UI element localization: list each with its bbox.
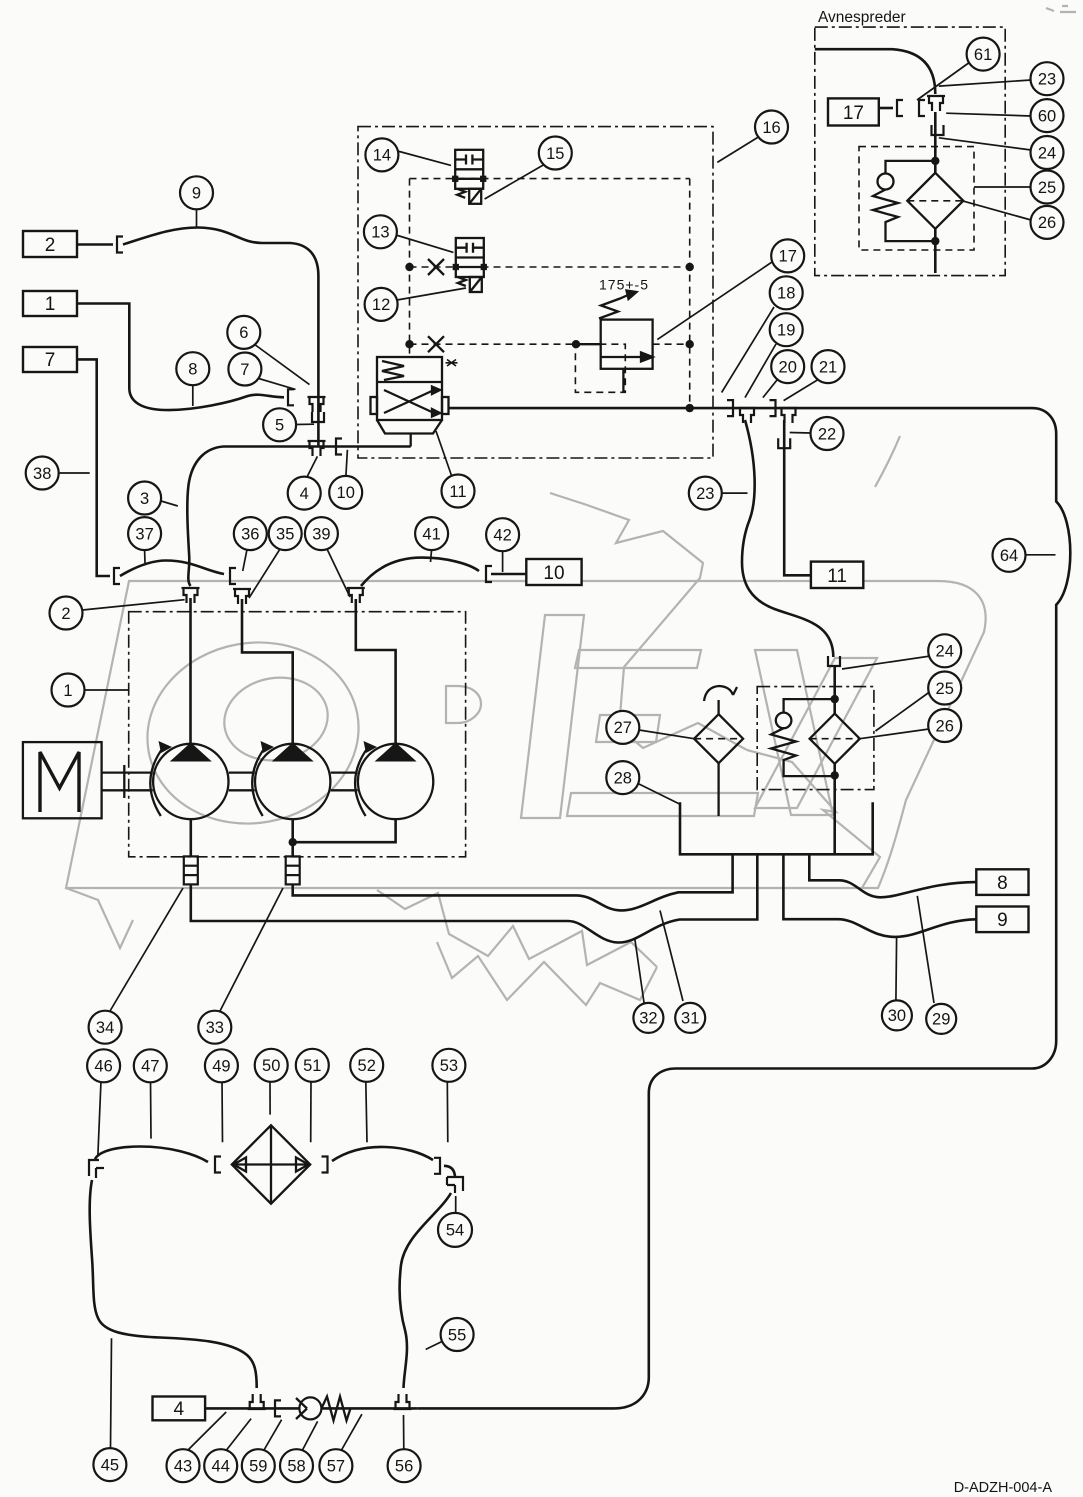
- oil cooler 50: [232, 1125, 310, 1203]
- filter element 26: [907, 173, 963, 229]
- leader 38: [59, 472, 90, 474]
- balloon 58: [280, 1449, 313, 1482]
- svg-text:11: 11: [827, 566, 847, 587]
- svg-text:25: 25: [936, 680, 954, 698]
- leader 41: [431, 550, 432, 562]
- box 2: [23, 231, 77, 257]
- balloon 49: [205, 1049, 238, 1082]
- motor letter M: [40, 752, 79, 812]
- hose 9: [123, 228, 318, 447]
- svg-text:30: 30: [888, 1007, 906, 1025]
- horizontal line y446: [223, 445, 411, 448]
- tee fitting: [927, 96, 945, 111]
- svg-text:19: 19: [777, 322, 795, 340]
- tee fitting 21: [780, 408, 798, 423]
- check valve 58: [299, 1397, 321, 1419]
- leader 42: [502, 551, 504, 572]
- tee fitting 19: [738, 408, 756, 423]
- fitting 59: [275, 1400, 281, 1416]
- svg-text:2: 2: [45, 235, 56, 256]
- leader 64: [1026, 554, 1056, 556]
- fitting left of cross: [288, 389, 294, 405]
- balloon 20: [771, 350, 804, 383]
- fitting: [114, 568, 120, 584]
- balloon 8 leader: [192, 386, 194, 407]
- svg-text:56: 56: [395, 1458, 413, 1476]
- box 9: [976, 907, 1028, 933]
- motor box: [23, 742, 102, 818]
- svg-text:11: 11: [449, 483, 466, 501]
- hose from tee(318,446) to pump1 riser: [187, 447, 223, 587]
- svg-text:7: 7: [240, 361, 249, 379]
- svg-text:6: 6: [239, 324, 248, 342]
- Avnespreder enclosure (dash-dot): [815, 27, 1005, 276]
- svg-text:61: 61: [974, 46, 992, 64]
- return line A to tank: [293, 854, 733, 910]
- svg-text:8: 8: [188, 361, 197, 379]
- svg-text:64: 64: [1000, 547, 1018, 565]
- valve 13: [454, 238, 486, 292]
- long hose 64 around page: [417, 408, 1070, 1408]
- balloon 8: [176, 352, 209, 385]
- svg-text:35: 35: [276, 525, 294, 543]
- check valve with spring: [878, 174, 894, 190]
- tee fitting 44: [248, 1394, 266, 1409]
- bottom supply line: [205, 1407, 417, 1410]
- balloon 24: [1031, 136, 1064, 169]
- svg-text:26: 26: [1038, 214, 1056, 232]
- fitting 60: [919, 100, 925, 116]
- reservoir tank: [680, 802, 873, 854]
- fitting 20: [770, 400, 776, 416]
- svg-text:23: 23: [1038, 71, 1056, 89]
- box 10: [526, 559, 581, 585]
- orifice X marks: [428, 259, 444, 275]
- pump unit enclosure (dash-dot): [129, 612, 466, 857]
- return filter element 26: [810, 714, 860, 764]
- balloon 21: [812, 350, 845, 383]
- balloon 25: [928, 672, 961, 705]
- balloon 64: [993, 539, 1026, 572]
- balloon 57: [319, 1449, 352, 1482]
- fitting 24: [828, 656, 840, 666]
- svg-text:2: 2: [61, 605, 70, 623]
- balloon 43: [167, 1449, 200, 1482]
- pump drain lines: [190, 819, 193, 856]
- svg-text:50: 50: [262, 1057, 280, 1075]
- WATERMARK: [66, 6, 1076, 1005]
- balloon 51: [296, 1049, 329, 1082]
- balloon 17: [771, 239, 804, 272]
- svg-text:4: 4: [174, 1399, 185, 1420]
- box 7: [23, 347, 77, 372]
- balloon 16: [755, 111, 788, 144]
- svg-text:Avnespreder: Avnespreder: [818, 9, 906, 26]
- leader 54: [455, 1196, 457, 1212]
- balloon 50: [255, 1049, 288, 1082]
- leaders 18-22: [722, 307, 774, 393]
- balloon 55: [441, 1318, 474, 1351]
- tee fitting 56: [394, 1394, 412, 1409]
- balloon 33: [198, 1011, 231, 1044]
- leader 10: [346, 450, 348, 476]
- svg-text:3: 3: [140, 490, 149, 508]
- balloon 19: [770, 313, 803, 346]
- svg-text:10: 10: [543, 563, 564, 584]
- svg-text:5: 5: [275, 417, 284, 435]
- elbow fitting 46: [89, 1160, 104, 1178]
- svg-text:16: 16: [762, 119, 780, 137]
- balloon 15: [539, 137, 572, 170]
- balloon 53: [432, 1049, 465, 1082]
- filter box 25 (dashed): [859, 147, 974, 250]
- hose 23 to return filter: [742, 420, 833, 657]
- svg-text:43: 43: [174, 1458, 192, 1476]
- balloon 54: [438, 1213, 472, 1247]
- svg-text:8: 8: [997, 873, 1008, 894]
- valve 14: [453, 150, 485, 204]
- leaders 36 35 39: [243, 550, 247, 572]
- svg-text:7: 7: [45, 350, 56, 371]
- balloon 31: [675, 1003, 705, 1033]
- balloon 59: [242, 1449, 275, 1482]
- balloon 2: [50, 597, 83, 630]
- svg-text:25: 25: [1038, 179, 1056, 197]
- drive shaft: [102, 771, 153, 773]
- svg-text:54: 54: [446, 1222, 464, 1240]
- svg-text:47: 47: [141, 1058, 159, 1076]
- balloon 26: [928, 709, 961, 742]
- leader 45: [111, 1338, 112, 1448]
- svg-text:42: 42: [493, 527, 511, 545]
- svg-text:14: 14: [373, 147, 391, 165]
- tee fitting at 4: [308, 441, 326, 456]
- balloon 52: [350, 1049, 383, 1082]
- balloon 3: [128, 482, 161, 515]
- return line B to tank: [191, 854, 758, 942]
- fitting 18: [727, 400, 733, 416]
- relief valve: [576, 291, 653, 393]
- hose from box 1: [77, 304, 284, 411]
- svg-text:1: 1: [63, 682, 72, 700]
- balloon 44: [204, 1449, 237, 1482]
- pump suction risers: [189, 598, 192, 744]
- svg-text:9: 9: [997, 910, 1008, 931]
- fitting 36: [230, 568, 236, 584]
- balloon 32: [633, 1003, 663, 1033]
- leader 5: [296, 423, 314, 425]
- leaders 14 13 12 15 16 17: [398, 151, 452, 165]
- leader 55: [426, 1341, 443, 1349]
- hose 45: [90, 1180, 257, 1388]
- balloon 34: [89, 1011, 122, 1044]
- balloon 26: [1031, 206, 1064, 239]
- filter bypass check valve: [784, 699, 835, 713]
- hose 52: [332, 1147, 433, 1161]
- balloon 22: [811, 417, 844, 450]
- leader 6: [254, 344, 310, 385]
- leader balloon2: [83, 600, 185, 610]
- svg-text:15: 15: [546, 145, 564, 163]
- svg-text:17: 17: [779, 248, 797, 266]
- balloon 61: [967, 38, 1000, 71]
- balloon 9: [180, 176, 213, 209]
- balloon 11: [442, 475, 475, 508]
- svg-text:34: 34: [96, 1019, 114, 1037]
- balloon 46: [87, 1049, 120, 1082]
- svg-text:1: 1: [45, 294, 56, 315]
- svg-text:38: 38: [33, 465, 51, 483]
- leader 3: [161, 501, 178, 506]
- leader 7: [257, 378, 296, 389]
- pilot lines (dashed): [410, 178, 690, 180]
- tank outlet hose to port 8: [809, 854, 976, 897]
- balloon 36: [234, 517, 267, 550]
- balloon 47: [134, 1049, 167, 1082]
- svg-text:36: 36: [241, 525, 259, 543]
- hose 47: [95, 1147, 208, 1163]
- fitting 23: [897, 100, 903, 116]
- balloon 41: [415, 517, 448, 550]
- balloon 56: [388, 1449, 421, 1482]
- main valve 11: [371, 357, 458, 447]
- svg-text:20: 20: [779, 358, 797, 376]
- main pressure line: [449, 407, 1033, 410]
- balloon 38: [26, 457, 59, 490]
- balloon 6: [227, 316, 260, 349]
- fitting 53: [434, 1158, 440, 1174]
- cross fitting under 6/7: [308, 397, 326, 412]
- elbow fitting 54: [447, 1177, 463, 1193]
- balloon 23: [1031, 62, 1064, 95]
- svg-text:18: 18: [777, 285, 795, 303]
- balloon 13: [364, 215, 397, 248]
- box 8: [976, 869, 1028, 895]
- svg-text:9: 9: [192, 185, 201, 203]
- svg-text:41: 41: [422, 525, 440, 543]
- leader 4: [307, 456, 317, 477]
- box 4: [153, 1397, 206, 1421]
- balloon 39: [305, 517, 338, 550]
- svg-text:10: 10: [337, 484, 355, 502]
- fitting 24 top: [932, 125, 944, 135]
- svg-text:23: 23: [696, 485, 714, 503]
- tank outlet hose to port 9: [783, 854, 976, 937]
- svg-text:21: 21: [819, 358, 837, 376]
- svg-text:53: 53: [440, 1057, 458, 1075]
- balloon 24: [928, 634, 961, 667]
- svg-text:37: 37: [135, 525, 153, 543]
- balloon 9 leader: [196, 210, 198, 228]
- svg-text:4: 4: [300, 485, 309, 503]
- svg-text:31: 31: [681, 1010, 699, 1028]
- balloon 28: [606, 761, 639, 794]
- svg-text:60: 60: [1038, 107, 1056, 125]
- balloon 23: [689, 477, 722, 510]
- balloon 12: [365, 288, 398, 321]
- balloon 30: [882, 1000, 912, 1030]
- svg-text:57: 57: [327, 1458, 345, 1476]
- pump P1: [153, 744, 228, 819]
- hose 55: [400, 1193, 451, 1388]
- fitting 49: [215, 1157, 221, 1173]
- svg-text:29: 29: [932, 1011, 950, 1029]
- leaders 24m 25m 26m 27 28: [842, 656, 931, 669]
- svg-text:59: 59: [249, 1458, 267, 1476]
- leader 37: [144, 550, 146, 563]
- svg-text:D-ADZH-004-A: D-ADZH-004-A: [954, 1480, 1053, 1496]
- hose 37: [120, 561, 224, 577]
- relief pilot drain box (dashed): [575, 344, 625, 392]
- leader 11: [436, 431, 452, 477]
- svg-text:17: 17: [843, 103, 864, 124]
- fitting at 10: [336, 439, 342, 455]
- wire box2 to fitting: [77, 243, 113, 246]
- junction node: [686, 404, 694, 412]
- svg-text:55: 55: [448, 1326, 466, 1344]
- balloon 37: [128, 517, 161, 550]
- leader 23 mid: [722, 492, 748, 494]
- box 17: [828, 98, 879, 125]
- wire from box 7: [77, 359, 110, 576]
- balloon 29: [926, 1004, 956, 1034]
- valve group enclosure 16 (dash-dot): [358, 127, 713, 458]
- pump P3: [358, 744, 433, 819]
- balloon 4: [288, 477, 321, 510]
- leader ticks 46-53: [98, 1081, 101, 1155]
- breather filter 27: [694, 714, 743, 763]
- balloon 7: [228, 353, 261, 386]
- svg-text:22: 22: [818, 425, 836, 443]
- balloon 27: [606, 711, 639, 744]
- tee pump2 riser: [233, 589, 251, 604]
- box 1: [23, 291, 77, 316]
- svg-text:45: 45: [101, 1456, 119, 1474]
- svg-text:12: 12: [372, 296, 390, 314]
- hose 61: [815, 49, 936, 94]
- svg-text:44: 44: [212, 1458, 230, 1476]
- svg-text:27: 27: [614, 719, 632, 737]
- union 33: [286, 856, 300, 884]
- balloon 25: [1031, 171, 1064, 204]
- union 34: [184, 856, 198, 884]
- fitting at box2 hose: [117, 237, 123, 253]
- svg-text:46: 46: [94, 1058, 112, 1076]
- hose 41 to port 10: [361, 558, 479, 586]
- tick fitting 5: [312, 412, 324, 422]
- leaders: [917, 62, 970, 100]
- svg-text:49: 49: [212, 1058, 230, 1076]
- leader balloon1: [85, 689, 129, 691]
- svg-text:51: 51: [303, 1057, 321, 1075]
- svg-text:52: 52: [358, 1057, 376, 1075]
- balloon 18: [770, 276, 803, 309]
- svg-text:24: 24: [936, 643, 954, 661]
- leaders 43 44 59 58 57: [188, 1412, 226, 1450]
- balloon 5: [263, 408, 296, 441]
- return filter enclosure 25 (dash-dot): [757, 687, 874, 790]
- svg-text:32: 32: [639, 1010, 657, 1028]
- leaders 29 30 31 32 33 34: [917, 896, 934, 1003]
- balloon 42: [486, 518, 519, 551]
- svg-text:26: 26: [936, 717, 954, 735]
- svg-text:175+-5: 175+-5: [599, 277, 649, 293]
- svg-text:13: 13: [371, 224, 389, 242]
- box 11: [811, 562, 863, 588]
- svg-text:28: 28: [614, 769, 632, 787]
- svg-text:39: 39: [312, 525, 330, 543]
- svg-text:33: 33: [206, 1019, 224, 1037]
- svg-text:58: 58: [287, 1458, 305, 1476]
- balloon 35: [269, 517, 302, 550]
- balloon 45: [93, 1448, 126, 1481]
- svg-text:24: 24: [1038, 144, 1056, 162]
- balloon 1: [52, 674, 85, 707]
- balloon 10: [329, 476, 362, 509]
- fitting 51: [322, 1157, 328, 1173]
- balloon 14: [365, 138, 398, 171]
- balloon 60: [1031, 99, 1064, 132]
- pump P2: [255, 744, 330, 819]
